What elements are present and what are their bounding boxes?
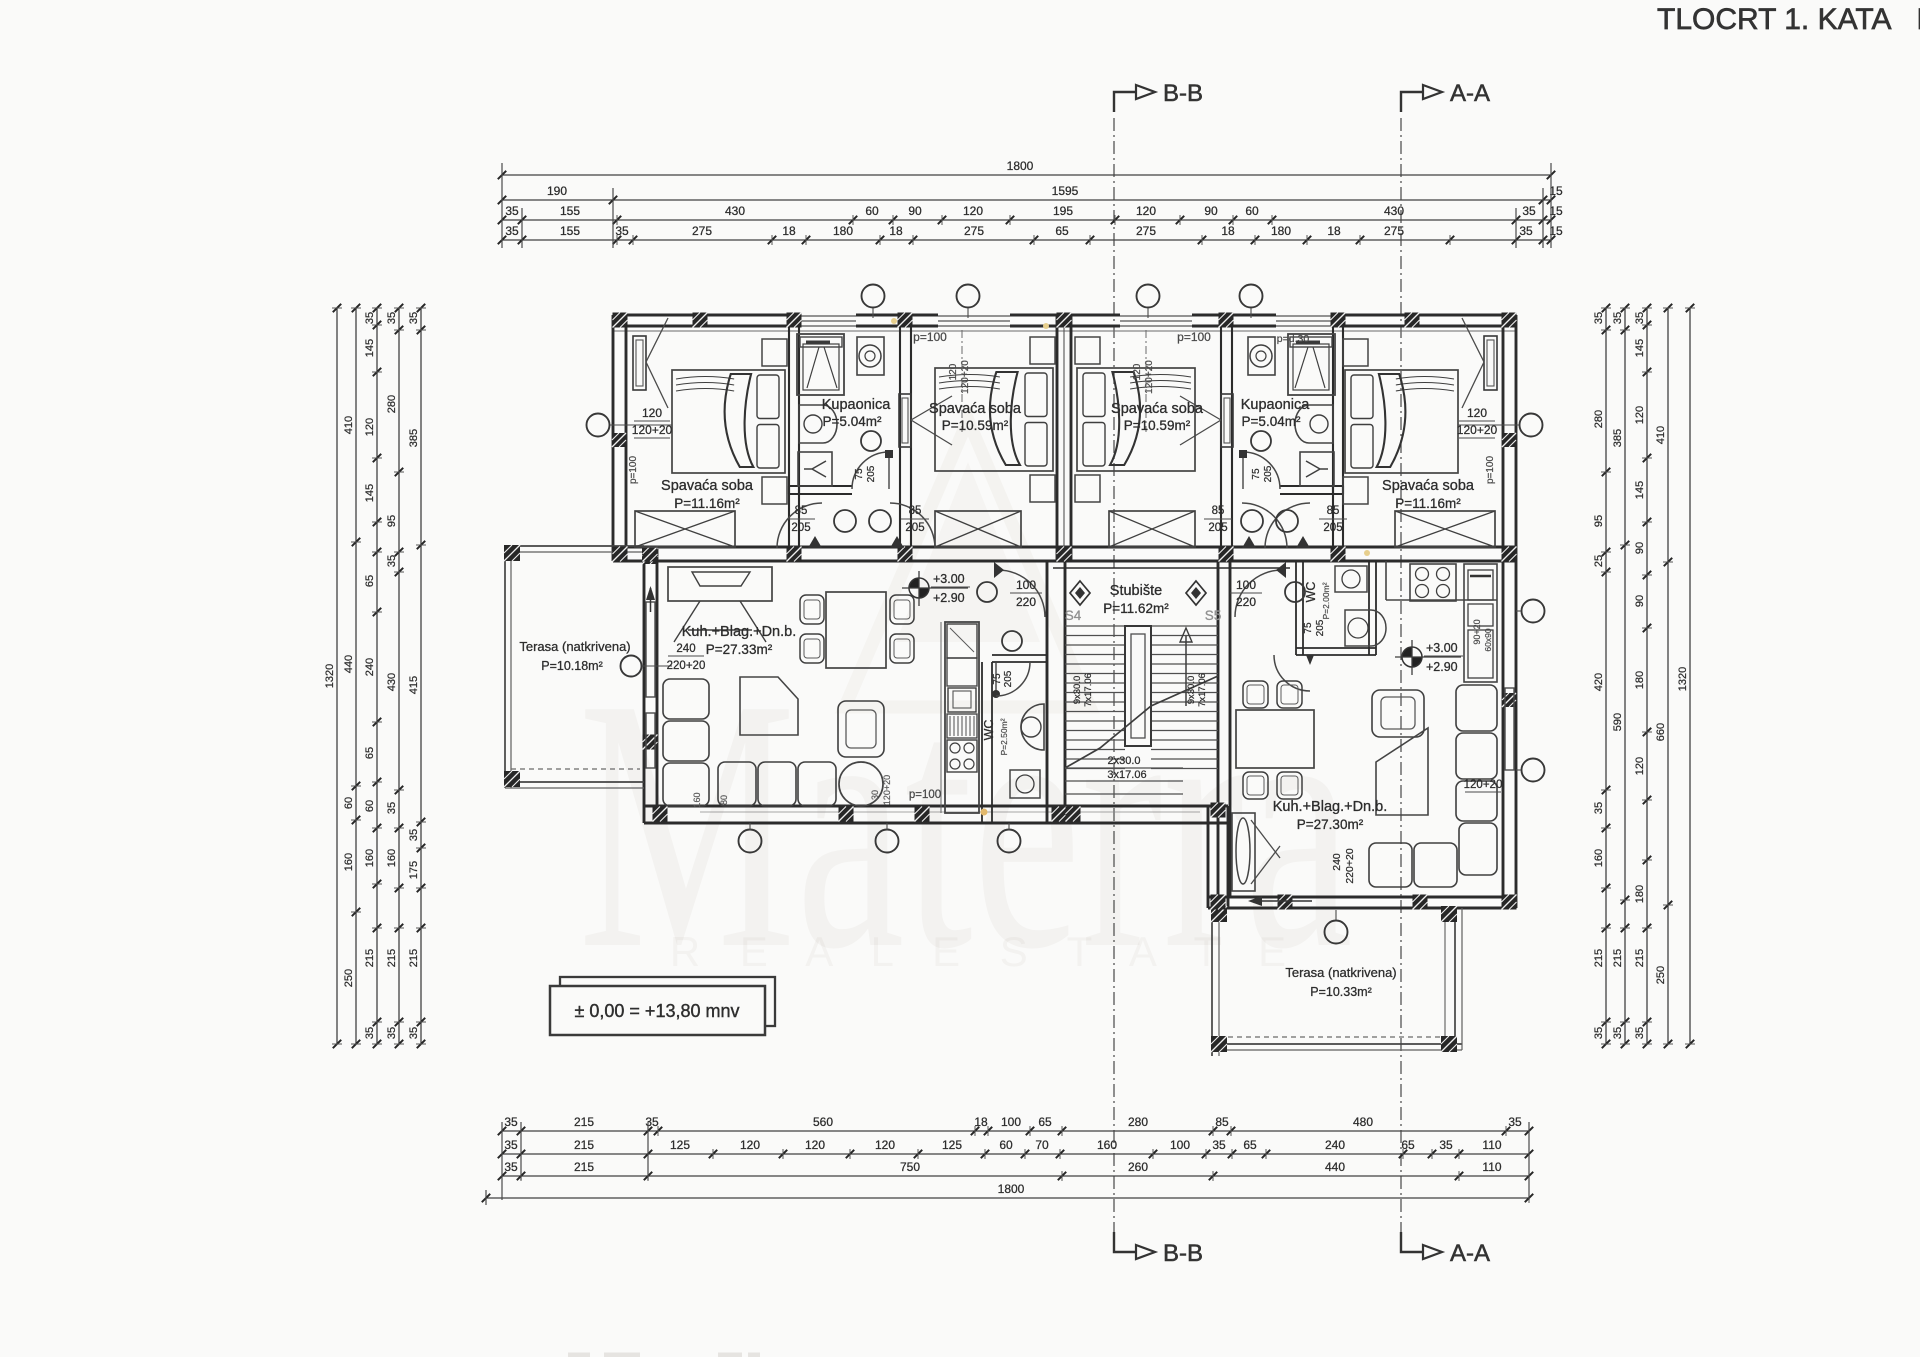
svg-text:65: 65 (1401, 1138, 1415, 1152)
svg-text:35: 35 (1593, 312, 1605, 324)
svg-text:240: 240 (1331, 853, 1343, 871)
svg-text:215: 215 (386, 949, 398, 967)
svg-text:p=100: p=100 (913, 330, 947, 344)
svg-text:+3.00: +3.00 (933, 572, 965, 586)
svg-text:205: 205 (866, 465, 877, 482)
svg-text:S4: S4 (1065, 608, 1082, 623)
svg-text:85: 85 (1327, 505, 1340, 517)
terrace door leaf left living (646, 602, 655, 697)
section marker B-B bottom (1114, 1232, 1136, 1252)
wall divide bedrooms-living (613, 546, 1516, 549)
window bedroom1 left wall (633, 336, 646, 390)
WC left washbasin (1021, 704, 1044, 750)
junction blocks divide wall (613, 547, 628, 562)
door arc entrance right apartment (1235, 570, 1282, 617)
svg-text:B-B: B-B (1163, 80, 1203, 107)
svg-text:160: 160 (343, 853, 355, 871)
svg-text:110: 110 (1482, 1160, 1501, 1174)
svg-text:A-A: A-A (1450, 80, 1490, 107)
svg-text:215: 215 (1634, 949, 1646, 967)
grid circle right wall bedroom4 (1520, 414, 1543, 437)
wall bathroom2 south (1280, 485, 1343, 487)
svg-text:75: 75 (1251, 468, 1262, 480)
wall stairwell east (1217, 561, 1220, 897)
dining chairs right (1243, 681, 1268, 708)
svg-text:P=27.33m²: P=27.33m² (706, 642, 773, 657)
top dimension row 35-155-35-275 (502, 239, 1551, 241)
grid circles right wall (1522, 600, 1545, 623)
WC left toilet (1010, 770, 1040, 798)
tv cabinet left living (668, 567, 772, 601)
svg-text:480: 480 (1353, 1115, 1373, 1129)
svg-text:280: 280 (1593, 410, 1605, 428)
svg-text:250: 250 (343, 969, 355, 987)
top dimension extension lines (501, 163, 503, 248)
terrace door right arrow (1262, 900, 1312, 902)
svg-text:S5: S5 (1205, 608, 1222, 623)
grid circles top wall (862, 285, 885, 308)
kitchen right counter (1386, 599, 1497, 601)
bathroom1 knob circle (861, 431, 881, 451)
svg-text:120: 120 (1634, 757, 1646, 775)
right dimension column 410-660-250 (1667, 308, 1669, 1044)
svg-text:P=11.16m²: P=11.16m² (674, 496, 740, 511)
stair diamond S5 (1186, 581, 1206, 605)
svg-text:430: 430 (1384, 204, 1404, 218)
section line A-A dashdot (1400, 118, 1402, 1232)
svg-text:90: 90 (1634, 542, 1646, 554)
svg-text:35: 35 (645, 1115, 659, 1129)
svg-text:660: 660 (1655, 723, 1667, 741)
terrace door left living arrow (646, 586, 655, 600)
section marker A-A bottom (1401, 1232, 1423, 1252)
door arc bedroom3 (1242, 503, 1287, 548)
svg-text:60: 60 (343, 797, 355, 809)
svg-text:100: 100 (1236, 578, 1256, 592)
wall corridor left unit west stub (788, 486, 790, 561)
svg-text:125: 125 (942, 1138, 962, 1152)
svg-text:35: 35 (1593, 802, 1605, 814)
svg-text:35: 35 (1634, 312, 1646, 324)
svg-text:110: 110 (1482, 1138, 1501, 1152)
svg-text:120: 120 (1467, 406, 1487, 420)
terrace left outline (505, 545, 644, 547)
svg-text:p=100: p=100 (628, 456, 639, 485)
svg-text:WC: WC (1304, 582, 1318, 603)
window bedroom4 right wall (1484, 336, 1497, 390)
svg-text:240: 240 (364, 658, 376, 676)
svg-text:90: 90 (908, 204, 922, 218)
svg-text:± 0,00 = +13,80 mnv: ± 0,00 = +13,80 mnv (575, 1001, 740, 1021)
WC left door knob circle (1002, 631, 1022, 651)
terrace left corner blocks (504, 545, 520, 561)
stairs break line (1065, 676, 1218, 768)
svg-text:Terasa (natkrivena): Terasa (natkrivena) (1285, 965, 1396, 980)
wall top exterior (613, 314, 1516, 317)
svg-text:145: 145 (1634, 339, 1646, 357)
kitchen right sink cabinet (1464, 564, 1497, 682)
bed bedroom2 (935, 368, 1053, 471)
window bedroom3 wall leaf (1221, 394, 1233, 447)
right dimension column 145-120-145-90 (1646, 308, 1648, 1044)
svg-text:120: 120 (948, 363, 959, 380)
svg-text:155: 155 (560, 204, 580, 218)
svg-text:440: 440 (1325, 1160, 1345, 1174)
reference dot 2 (1364, 550, 1370, 556)
svg-text:240: 240 (1325, 1138, 1345, 1152)
svg-text:430: 430 (386, 673, 398, 691)
svg-text:1595: 1595 (1052, 184, 1079, 198)
svg-text:180: 180 (833, 224, 853, 238)
svg-text:590: 590 (1612, 713, 1624, 731)
bathroom2 washbasin (1295, 405, 1333, 443)
svg-text:35: 35 (1612, 312, 1624, 324)
svg-text:215: 215 (1593, 949, 1605, 967)
svg-text:35: 35 (1508, 1115, 1522, 1129)
terrace door right living (1232, 813, 1255, 891)
svg-text:P=5.04m²: P=5.04m² (823, 414, 882, 429)
svg-text:+2.90: +2.90 (1426, 660, 1458, 674)
svg-text:85: 85 (909, 505, 922, 517)
svg-text:260: 260 (1128, 1160, 1148, 1174)
svg-text:175: 175 (408, 861, 420, 879)
wall left living west (643, 547, 646, 823)
svg-text:65: 65 (364, 747, 376, 759)
wall left WC (981, 662, 983, 823)
junction blocks bottom walls (653, 807, 668, 822)
watermark Materra logo triangle (845, 420, 1090, 707)
wall party center (1056, 315, 1059, 561)
svg-text:75: 75 (854, 468, 865, 480)
top dimension row 35-155-430 (502, 219, 1551, 221)
stairs up arrow (1185, 636, 1187, 706)
svg-text:Kuh.+Blag.+Dn.b.: Kuh.+Blag.+Dn.b. (1273, 799, 1387, 815)
door knob circle entrance right (1285, 582, 1305, 602)
svg-text:30: 30 (870, 790, 880, 800)
svg-text:215: 215 (574, 1160, 594, 1174)
door knob circles left corridor (834, 510, 856, 532)
wall right exterior (1502, 315, 1505, 908)
svg-text:280: 280 (386, 395, 398, 413)
door arc entrance left apartment (998, 570, 1045, 617)
svg-text:100: 100 (1001, 1115, 1021, 1129)
bed bedroom1 (672, 370, 785, 473)
svg-text:35: 35 (386, 802, 398, 814)
svg-text:3x17.06: 3x17.06 (1107, 769, 1146, 781)
svg-text:205: 205 (1263, 465, 1274, 482)
svg-text:Terasa (natkrivena): Terasa (natkrivena) (519, 639, 630, 654)
svg-text:+3.00: +3.00 (1426, 641, 1458, 655)
svg-text:85: 85 (795, 505, 808, 517)
svg-text:B-B: B-B (1163, 1240, 1203, 1267)
wall bathroom1 south (789, 485, 852, 487)
wall step down right apartment (1207, 806, 1210, 908)
right dimension column 385-590 (1624, 308, 1626, 1044)
svg-text:35: 35 (1634, 1027, 1646, 1039)
bottom dimension row 35-215-125-120 (502, 1153, 1529, 1155)
svg-text:60: 60 (364, 800, 376, 812)
svg-text:155: 155 (560, 224, 580, 238)
stairs bottom flight treads (1065, 767, 1183, 769)
svg-text:60: 60 (999, 1138, 1013, 1152)
terrace right outline (1211, 908, 1213, 1056)
svg-text:18: 18 (1327, 224, 1341, 238)
wall bathroom2 east (1332, 315, 1334, 494)
svg-text:160: 160 (1593, 849, 1605, 867)
grid circle left wall bedroom1 (587, 414, 610, 437)
svg-text:1800: 1800 (1007, 159, 1034, 173)
svg-text:240: 240 (676, 643, 695, 655)
svg-text:25: 25 (1593, 555, 1605, 567)
svg-text:160: 160 (692, 792, 702, 807)
WC right door arc (1274, 655, 1310, 691)
top dimension row 190-1595-15 (502, 199, 1551, 201)
svg-text:95: 95 (1593, 515, 1605, 527)
svg-text:p=d.30: p=d.30 (1277, 333, 1310, 345)
svg-text:Spavaća soba: Spavaća soba (661, 478, 754, 494)
junction blocks top wall (613, 313, 628, 328)
svg-text:1320: 1320 (324, 664, 336, 688)
svg-text:35: 35 (1212, 1138, 1226, 1152)
wall stairwell west (1046, 561, 1049, 823)
svg-text:120: 120 (1132, 363, 1143, 380)
bathroom1 toilet (798, 452, 832, 486)
svg-text:275: 275 (1384, 224, 1404, 238)
section marker B-B top (1114, 92, 1136, 112)
bathroom2 shower (1288, 334, 1335, 395)
svg-text:35: 35 (386, 555, 398, 567)
left dimension column 35-280-95 (398, 308, 400, 1044)
svg-text:1800: 1800 (998, 1182, 1025, 1196)
svg-text:P=10.59m²: P=10.59m² (942, 418, 1009, 433)
svg-text:P=2.50m²: P=2.50m² (999, 718, 1009, 755)
svg-text:P=10.59m²: P=10.59m² (1124, 418, 1191, 433)
svg-text:P=5.04m²: P=5.04m² (1242, 414, 1301, 429)
svg-text:215: 215 (364, 949, 376, 967)
svg-text:205: 205 (1208, 522, 1227, 534)
svg-text:215: 215 (574, 1115, 594, 1129)
armchair left living (838, 701, 884, 757)
svg-text:35: 35 (1439, 1138, 1453, 1152)
svg-text:1320: 1320 (1677, 667, 1689, 691)
svg-text:205: 205 (1315, 619, 1326, 636)
svg-text:90: 90 (1634, 595, 1646, 607)
svg-text:P=11.62m²: P=11.62m² (1103, 601, 1169, 616)
svg-text:250: 250 (1655, 966, 1667, 984)
svg-text:60x90: 60x90 (1483, 628, 1493, 651)
svg-text:85: 85 (1212, 505, 1225, 517)
svg-text:80: 80 (719, 795, 729, 805)
svg-text:A-A: A-A (1450, 1240, 1490, 1267)
wardrobe bedroom1 (635, 511, 735, 547)
left dimension column 1320 (336, 308, 338, 1044)
svg-text:120: 120 (364, 418, 376, 436)
section line B-B dashdot (1113, 118, 1115, 1232)
svg-text:120: 120 (740, 1138, 760, 1152)
svg-text:215: 215 (574, 1138, 594, 1152)
bottom dimension row 1800 (486, 1197, 1529, 1199)
wall bathroom2 west (1220, 315, 1222, 561)
bed bedroom4 (1345, 370, 1458, 473)
svg-text:35: 35 (1519, 224, 1533, 238)
elevation info box (560, 977, 775, 1026)
svg-text:220+20: 220+20 (1344, 848, 1356, 883)
svg-text:35: 35 (364, 1027, 376, 1039)
reference dot 3 (981, 809, 988, 816)
bed bedroom3 (1077, 368, 1195, 471)
bathroom1 washing machine (857, 337, 884, 375)
door arc bedroom4 (1265, 503, 1310, 548)
bottom edge cut text marks (568, 1353, 760, 1357)
svg-text:100: 100 (1016, 578, 1036, 592)
bathroom1 door arc (852, 452, 889, 489)
svg-text:P=10.33m²: P=10.33m² (1310, 985, 1372, 999)
svg-text:65: 65 (364, 575, 376, 587)
wardrobe bedroom4 (1395, 511, 1495, 547)
bathroom2 washing machine (1248, 337, 1275, 375)
svg-text:18: 18 (1221, 224, 1235, 238)
wall corridor right unit east stub (1332, 486, 1334, 561)
wall bottom left apartment and stairwell (644, 805, 1228, 808)
svg-text:18: 18 (974, 1115, 988, 1129)
svg-text:18: 18 (889, 224, 903, 238)
door arc bedroom2 (890, 503, 935, 548)
svg-text:9x30.0: 9x30.0 (1072, 676, 1083, 705)
bathroom2 shelf (1290, 337, 1332, 347)
svg-text:p=100: p=100 (909, 789, 941, 801)
svg-text:190: 190 (547, 184, 567, 198)
svg-text:180: 180 (1271, 224, 1291, 238)
stairs right flight treads (1151, 625, 1218, 627)
svg-text:215: 215 (408, 949, 420, 967)
svg-text:2x30.0: 2x30.0 (1107, 755, 1140, 767)
coffee table left living (740, 677, 798, 735)
svg-text:120: 120 (875, 1138, 895, 1152)
svg-text:65: 65 (1038, 1115, 1052, 1129)
svg-text:P=11.16m²: P=11.16m² (1395, 496, 1461, 511)
grid circle left terrace (621, 656, 642, 677)
armchair right top (1372, 690, 1424, 737)
svg-text:35: 35 (1522, 204, 1536, 218)
round table left living (839, 762, 883, 806)
svg-text:215: 215 (1612, 949, 1624, 967)
svg-text:205: 205 (905, 522, 924, 534)
svg-text:p=100: p=100 (1485, 456, 1496, 485)
left dimension column 410-440 (355, 308, 357, 1044)
stairs left flight treads (1065, 625, 1125, 627)
svg-text:35: 35 (1612, 1027, 1624, 1039)
svg-text:120: 120 (642, 406, 662, 420)
svg-text:220+20: 220+20 (667, 660, 706, 672)
svg-text:275: 275 (1136, 224, 1156, 238)
svg-text:385: 385 (408, 429, 420, 447)
bottom dimension row 35-215-35-560 (502, 1130, 1529, 1132)
svg-text:TLOCRT 1. KATA M: TLOCRT 1. KATA M (1657, 3, 1920, 36)
svg-text:60: 60 (865, 204, 879, 218)
svg-text:85: 85 (1215, 1115, 1229, 1129)
svg-text:125: 125 (670, 1138, 690, 1152)
svg-text:145: 145 (364, 339, 376, 357)
WC right toilet (1335, 566, 1367, 592)
wall left exterior bedroom band (612, 315, 615, 561)
grid circle right terrace (1325, 921, 1348, 944)
coffee table right (1376, 728, 1428, 815)
svg-text:120: 120 (1136, 204, 1156, 218)
svg-text:Kupaonica: Kupaonica (822, 397, 891, 413)
svg-text:120+20: 120+20 (1457, 423, 1498, 437)
svg-text:145: 145 (1634, 481, 1646, 499)
svg-text:560: 560 (813, 1115, 833, 1129)
svg-text:95: 95 (386, 515, 398, 527)
svg-text:R E A L E S T A T E: R E A L E S T A T E (670, 928, 1300, 975)
svg-text:35: 35 (408, 1027, 420, 1039)
svg-text:440: 440 (343, 655, 355, 673)
sofa left living (663, 679, 709, 719)
reference dot 4 (1043, 323, 1049, 329)
window right wall living (1505, 688, 1514, 770)
wall stair hall north extra line (1053, 567, 1290, 569)
bathroom1 shelf (800, 337, 842, 347)
svg-text:750: 750 (900, 1160, 920, 1174)
svg-text:385: 385 (1612, 429, 1624, 447)
svg-text:9x30.0: 9x30.0 (1186, 676, 1197, 705)
svg-text:195: 195 (1053, 204, 1073, 218)
svg-text:Stubište: Stubište (1110, 583, 1162, 599)
door knob circle entrance left (977, 582, 997, 602)
wardrobe bedroom2 (935, 511, 1021, 547)
left dimension column 145-120 (376, 308, 378, 1044)
bathroom2 knob circle (1251, 431, 1271, 451)
WC right washbasin (1345, 610, 1386, 646)
wardrobe bedroom3 (1109, 511, 1195, 547)
svg-text:160: 160 (1097, 1138, 1117, 1152)
reference dot 1 (891, 318, 897, 324)
svg-text:35: 35 (505, 224, 519, 238)
svg-text:410: 410 (1655, 426, 1667, 444)
bottom dimension row 35-215-750-260-440-110 (502, 1175, 1529, 1177)
svg-text:120+20: 120+20 (632, 423, 673, 437)
svg-text:Spavaća soba: Spavaća soba (1382, 478, 1475, 494)
svg-text:90+20: 90+20 (1472, 619, 1482, 644)
svg-text:120: 120 (805, 1138, 825, 1152)
svg-text:WC: WC (982, 720, 996, 741)
svg-text:430: 430 (725, 204, 745, 218)
bottom dimension extension lines (501, 1122, 503, 1200)
watermark Materra text (578, 625, 1353, 1024)
right dimension column 1320 (1689, 308, 1691, 1044)
svg-text:p=100: p=100 (1177, 330, 1211, 344)
bathroom1 washbasin (799, 405, 837, 443)
svg-text:145: 145 (364, 484, 376, 502)
svg-text:160: 160 (386, 849, 398, 867)
svg-text:Kupaonica: Kupaonica (1241, 397, 1310, 413)
wall bathroom1 east (899, 315, 901, 561)
junction blocks side walls (612, 433, 626, 447)
top dimension row 1800 (502, 174, 1551, 176)
stair diamond S4 (1070, 581, 1090, 605)
svg-text:Kuh.+Blag.+Dn.b.: Kuh.+Blag.+Dn.b. (682, 624, 796, 640)
svg-text:275: 275 (964, 224, 984, 238)
terrace right corner blocks (1211, 906, 1227, 922)
svg-text:420: 420 (1593, 673, 1605, 691)
elevation marker right apartment (1402, 647, 1412, 657)
svg-text:160: 160 (364, 849, 376, 867)
svg-text:220: 220 (1016, 595, 1036, 609)
sofa right wall (1456, 685, 1497, 731)
window bedroom2 wall leaf (899, 394, 911, 447)
bathroom2 toilet (1300, 452, 1334, 486)
svg-text:35: 35 (504, 1138, 518, 1152)
